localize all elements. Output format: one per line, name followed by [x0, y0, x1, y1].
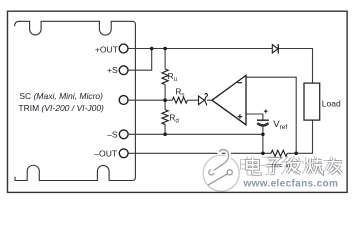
- wire battery to rails: [262, 126, 264, 154]
- junction feedback on load return: [294, 152, 298, 156]
- wire Rs to zener: [187, 99, 198, 101]
- svg-text:–S: –S: [107, 129, 118, 139]
- resistor bottom sense: [271, 150, 287, 156]
- pin -S: [119, 130, 128, 139]
- zener diode: [199, 96, 205, 105]
- wire op-amp minus feedback: [246, 77, 296, 153]
- svg-text:Load: Load: [322, 98, 341, 108]
- wire op-amp plus to battery: [246, 114, 263, 120]
- svg-text:SC (Maxi, Mini, Micro): SC (Maxi, Mini, Micro): [19, 91, 103, 101]
- resistor Ru: [162, 69, 168, 85]
- wire rail after diode to load top: [278, 49, 312, 84]
- wire zener to op-amp: [207, 99, 212, 101]
- svg-text:TRIM (VI-200 / VI-J00): TRIM (VI-200 / VI-J00): [18, 103, 104, 113]
- wire bottom resistor to load bottom: [287, 120, 312, 153]
- pin +OUT: [119, 44, 128, 53]
- wire +OUT rail: [128, 48, 272, 50]
- wire Ru top: [164, 49, 166, 70]
- pin -OUT: [119, 149, 128, 158]
- wire trim pin to node: [128, 99, 165, 101]
- junction +S/+OUT rail: [150, 47, 154, 51]
- watermark logo stem overlay (occludes rail): [214, 150, 229, 171]
- wire +S up to rail: [128, 49, 152, 71]
- wire Rs row left: [165, 99, 172, 101]
- svg-text:+OUT: +OUT: [95, 45, 119, 55]
- pin +S: [119, 66, 128, 75]
- wire Rd top: [164, 100, 166, 109]
- watermark ghost chars 电子发烧友: [240, 156, 340, 175]
- junction trim node: [163, 98, 167, 102]
- svg-text:www.elecfans.com: www.elecfans.com: [243, 179, 339, 190]
- watermark gray chars 电子发烧友: [247, 158, 342, 174]
- pin SC/TRIM: [119, 96, 128, 105]
- battery Vref: [257, 119, 269, 121]
- junction Rd bottom on -S rail: [163, 133, 167, 137]
- resistor Rs: [172, 97, 187, 103]
- watermark logo elecfans: [203, 150, 239, 192]
- wire Ru bottom: [164, 85, 166, 101]
- load box: [304, 83, 320, 120]
- junction -OUT rail / Vref branch: [261, 152, 265, 156]
- svg-text:–OUT: –OUT: [94, 149, 118, 159]
- wire Rd bottom: [164, 124, 166, 134]
- junction -S rail / Vref: [261, 133, 265, 137]
- resistor Rd: [162, 110, 168, 125]
- wire -OUT rail: [128, 152, 271, 154]
- wire -S rail: [128, 133, 263, 135]
- diode D1 top rail: [272, 45, 278, 54]
- outer frame: [8, 11, 348, 192]
- module outline (converter body with notches and bumps): [15, 21, 136, 180]
- svg-text:+S: +S: [107, 65, 118, 75]
- op-amp U1: [212, 75, 246, 124]
- junction Ru top on +OUT rail: [163, 47, 167, 51]
